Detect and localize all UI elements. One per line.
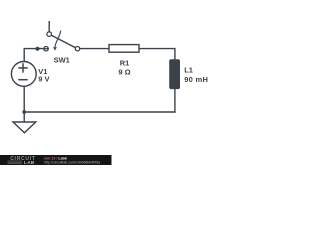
svg-text:R1: R1 — [120, 58, 130, 67]
svg-text:LAB: LAB — [24, 160, 35, 165]
svg-text:http://circuitlab.com/c/w068kb: http://circuitlab.com/c/w068kb4hf5a — [44, 160, 100, 164]
svg-text:90 mH: 90 mH — [184, 75, 208, 84]
svg-text:L1: L1 — [184, 66, 193, 75]
svg-text:9 V: 9 V — [38, 74, 49, 83]
svg-text:9 Ω: 9 Ω — [118, 67, 130, 76]
svg-text:SW1: SW1 — [54, 55, 70, 64]
